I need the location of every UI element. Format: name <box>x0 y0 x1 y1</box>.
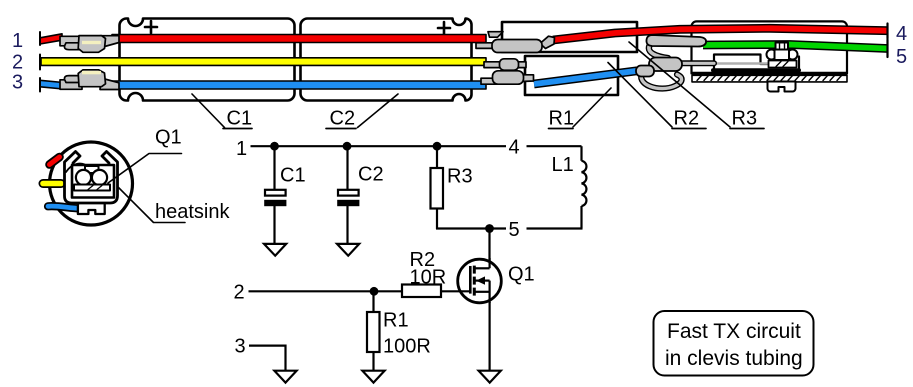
transistor lead curve <box>66 164 88 172</box>
inner block (switch body) <box>714 55 769 70</box>
svg-text:2: 2 <box>234 282 245 304</box>
bare wire to bolt <box>681 60 714 66</box>
transistor Q1 mosfet <box>458 258 502 303</box>
bare wire loop lower <box>641 71 681 89</box>
svg-text:C1: C1 <box>280 165 306 187</box>
label R3 with leader <box>629 42 764 130</box>
junction dot R3 <box>433 142 442 151</box>
wire node2 rail <box>249 290 403 292</box>
crimp right red <box>476 32 555 53</box>
svg-text:C1: C1 <box>227 108 253 130</box>
transistor bar (washer) <box>74 185 110 191</box>
junction dot node5 <box>485 224 494 233</box>
svg-text:100R: 100R <box>383 336 431 358</box>
bolt nut <box>767 43 798 61</box>
capacitor C2 symbol <box>337 146 359 244</box>
svg-text:1: 1 <box>236 138 247 160</box>
svg-text:R3: R3 <box>732 108 758 130</box>
inductor L1 <box>582 146 587 228</box>
label C1 with leader <box>192 94 252 130</box>
blue wire diagonal through R1 <box>534 71 637 84</box>
svg-text:in clevis tubing: in clevis tubing <box>665 347 803 370</box>
svg-text:4: 4 <box>896 23 907 45</box>
svg-text:1: 1 <box>12 30 23 52</box>
inner block right edge <box>798 57 800 70</box>
svg-text:2: 2 <box>12 52 23 74</box>
red wire stub on can <box>50 157 60 165</box>
bolt thread plate <box>769 61 797 68</box>
wire end tick 3 <box>39 78 41 92</box>
wire node3 <box>249 346 286 371</box>
ground below R1 <box>362 371 384 383</box>
crimp right blue <box>481 71 534 84</box>
bare wire loop upper <box>649 40 668 59</box>
svg-text:Q1: Q1 <box>508 264 535 286</box>
capacitor C1 symbol <box>264 146 286 244</box>
wire end tick 2 <box>39 55 41 70</box>
resistor R2 symbol <box>402 285 441 298</box>
crimp right yellow <box>484 59 526 70</box>
crimp far right lower <box>649 58 682 72</box>
wire top rail right <box>527 145 582 147</box>
resistor R1/R2 body (lower rect) <box>525 56 618 95</box>
transistor mounting rect <box>72 165 114 198</box>
clevis tube circle <box>50 142 133 225</box>
wire bottom rail right <box>527 227 583 229</box>
crimp left blue <box>60 70 119 90</box>
label R2 with leader <box>608 63 706 130</box>
resistor R3 symbol <box>431 146 444 229</box>
wire R2 to gate <box>441 290 470 292</box>
junction dot node2 <box>370 287 379 296</box>
crimp far right upper (R3 to green) <box>646 35 706 47</box>
svg-text:5: 5 <box>509 219 520 241</box>
ground below C2 <box>337 244 359 256</box>
svg-text:Q1: Q1 <box>155 127 182 149</box>
svg-text:3: 3 <box>12 72 23 94</box>
capacitor C1 body <box>120 19 295 101</box>
blue wire stub on can <box>48 206 79 208</box>
svg-text:C2: C2 <box>330 108 356 130</box>
wire top rail left <box>251 145 507 147</box>
wire end tick 4 <box>886 24 888 39</box>
svg-text:heatsink: heatsink <box>155 201 230 223</box>
svg-text:Fast TX circuit: Fast TX circuit <box>667 320 801 343</box>
crimp blue end <box>636 66 654 77</box>
wire end tick 1 <box>39 32 41 45</box>
crimp left red <box>60 36 119 53</box>
capacitor C2 body <box>301 19 472 101</box>
svg-text:R3: R3 <box>447 166 473 188</box>
yellow wire stub on can <box>43 179 61 188</box>
ground below node3 <box>274 371 296 383</box>
inner block bottom bar <box>713 68 799 72</box>
blue wire main bar <box>108 81 486 89</box>
svg-text:R2: R2 <box>674 108 700 130</box>
svg-text:L1: L1 <box>552 154 574 176</box>
svg-text:10R: 10R <box>410 267 447 289</box>
wire bottom rail left <box>436 227 506 229</box>
transistor top tab <box>85 166 99 173</box>
plus mark C2 <box>438 22 450 34</box>
resistor R1 symbol <box>367 291 380 370</box>
label Q1 with leader <box>108 127 182 184</box>
red wire main bar <box>112 35 486 43</box>
ground below Q1 <box>479 371 501 383</box>
plus mark C1 <box>145 21 157 33</box>
svg-text:5: 5 <box>896 46 907 68</box>
green wire to 5 <box>703 45 888 49</box>
thin wire to bolt <box>714 62 769 65</box>
svg-text:C2: C2 <box>358 164 384 186</box>
yellow wire <box>41 58 486 66</box>
screw head below tube <box>768 82 796 92</box>
heatsink bottom tab <box>78 205 105 215</box>
tube floor line <box>692 72 846 74</box>
red wire diagonal through R3 <box>553 28 888 40</box>
svg-text:R1: R1 <box>549 108 575 130</box>
label C2 with leader <box>326 94 398 130</box>
wire end tick 5 <box>886 40 888 58</box>
svg-text:R1: R1 <box>383 310 409 332</box>
resistor R3 body (top rect) <box>502 22 637 52</box>
label R1 with leader <box>549 88 612 130</box>
ground below C1 <box>264 244 286 256</box>
blue wire stub left <box>40 80 63 89</box>
label heatsink with leader <box>119 188 231 224</box>
wire source to ground <box>489 302 491 371</box>
junction dot C1 <box>270 142 279 151</box>
clevis tube end <box>692 21 848 73</box>
svg-text:4: 4 <box>509 137 520 159</box>
wire drain <box>488 229 490 269</box>
svg-text:3: 3 <box>235 336 246 358</box>
hatched bottom strip <box>692 75 847 82</box>
junction dot C2 <box>343 142 352 151</box>
heatsink outline <box>65 152 118 204</box>
transistor body circles <box>76 170 91 185</box>
red wire stub left <box>40 34 62 44</box>
title box <box>654 311 814 376</box>
